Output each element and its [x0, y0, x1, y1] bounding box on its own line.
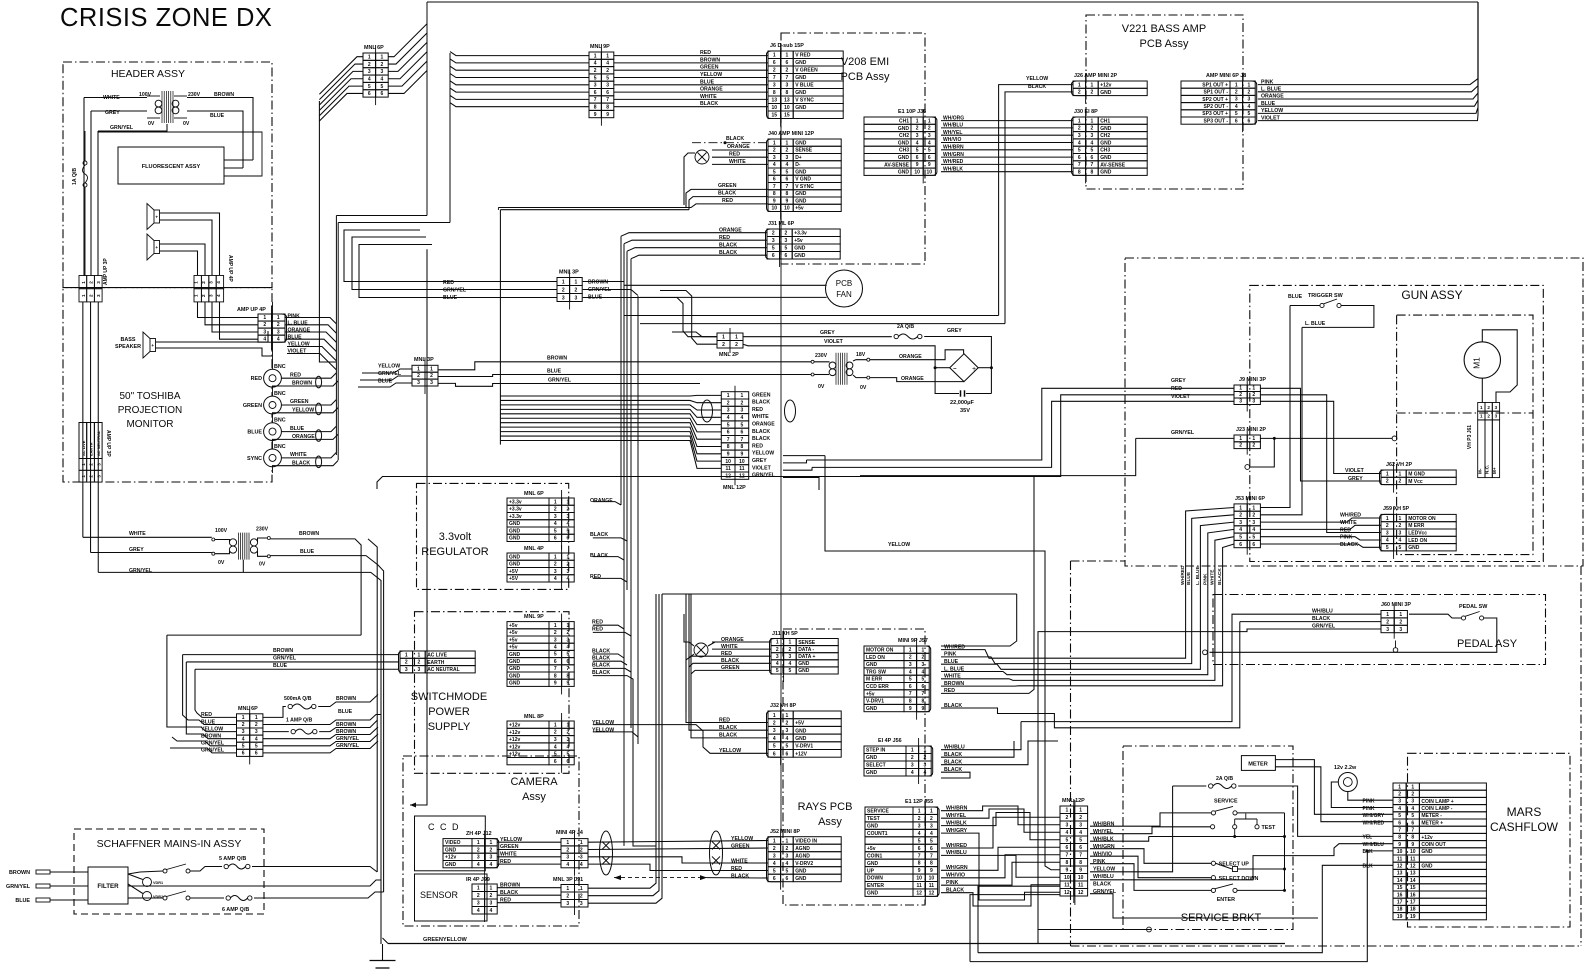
- svg-text:13: 13: [1410, 871, 1416, 877]
- svg-text:WHITE: WHITE: [500, 852, 517, 858]
- connector AMP UP 3P monitor AC: [79, 423, 87, 459]
- svg-text:GND: GND: [1100, 90, 1112, 96]
- wire long x662 lines: [662, 593, 1017, 595]
- wire grnyel gun to J23: [1136, 437, 1234, 439]
- svg-text:2: 2: [567, 507, 570, 513]
- svg-text:5: 5: [740, 422, 743, 428]
- svg-text:+5v: +5v: [866, 691, 875, 697]
- svg-text:TRIGGER SW: TRIGGER SW: [1308, 293, 1344, 299]
- connector MNL 6P regulator: [507, 498, 549, 542]
- svg-text:COIN LAMP -: COIN LAMP -: [1421, 806, 1452, 812]
- svg-text:2: 2: [1091, 90, 1094, 96]
- svg-text:+12v: +12v: [1100, 83, 1111, 89]
- capacitor 22000uF: [960, 390, 962, 396]
- wires J12 to J4: [497, 841, 561, 843]
- monitor box: [63, 288, 272, 482]
- select down switch: [1211, 876, 1215, 880]
- svg-text:2: 2: [924, 755, 927, 761]
- svg-text:GRN/YEL: GRN/YEL: [548, 378, 572, 384]
- svg-text:1: 1: [580, 840, 583, 846]
- svg-text:1: 1: [1066, 808, 1069, 814]
- wires J55 to MNL12P coin: [941, 806, 1060, 825]
- svg-text:4: 4: [1386, 538, 1389, 544]
- svg-text:5: 5: [786, 744, 789, 750]
- svg-text:WH/BLU: WH/BLU: [1093, 874, 1114, 880]
- svg-text:RED: RED: [752, 443, 763, 449]
- connector MNL 8P psu: [507, 721, 549, 765]
- svg-text:3: 3: [554, 737, 557, 743]
- svg-text:3: 3: [418, 667, 421, 673]
- svg-text:WHITE: WHITE: [721, 644, 738, 650]
- svg-text:10: 10: [914, 170, 920, 176]
- BNC GREEN: [264, 396, 282, 414]
- svg-text:CH1: CH1: [899, 119, 909, 125]
- svg-text:BROWN: BROWN: [9, 870, 30, 876]
- svg-text:4: 4: [930, 831, 933, 837]
- svg-text:4: 4: [277, 336, 280, 342]
- svg-text:GND: GND: [1100, 140, 1112, 146]
- svg-text:GND: GND: [866, 770, 878, 776]
- svg-text:BNC: BNC: [274, 364, 286, 370]
- svg-text:GND: GND: [509, 528, 521, 534]
- svg-text:4: 4: [242, 736, 245, 742]
- svg-text:6: 6: [567, 659, 570, 665]
- svg-text:6: 6: [909, 684, 912, 690]
- svg-text:2: 2: [1252, 443, 1255, 449]
- svg-text:1: 1: [928, 118, 931, 124]
- svg-text:STEP IN: STEP IN: [866, 748, 886, 754]
- cable shield left: [702, 400, 713, 422]
- svg-text:1: 1: [1239, 386, 1242, 392]
- svg-text:BLACK: BLACK: [752, 436, 770, 442]
- wires J56 right: [941, 722, 1021, 750]
- svg-text:AMP UP 4P: AMP UP 4P: [237, 307, 266, 313]
- transformer T1 header: [161, 91, 163, 123]
- wire grey to fuse: [743, 336, 892, 338]
- V221 BASS AMP box: [1086, 15, 1243, 189]
- svg-text:1: 1: [490, 886, 493, 892]
- svg-text:BLACK: BLACK: [592, 670, 610, 676]
- svg-text:GRN/YEL: GRN/YEL: [336, 736, 360, 742]
- wires trigger down: [1260, 306, 1290, 508]
- svg-text:4: 4: [381, 77, 384, 83]
- svg-text:+: +: [151, 343, 154, 348]
- connector AMP MINI 6P J8: [1181, 81, 1230, 124]
- svg-text:3: 3: [96, 463, 101, 466]
- svg-text:+: +: [155, 215, 158, 220]
- svg-text:3: 3: [405, 667, 408, 673]
- svg-text:5: 5: [789, 668, 792, 674]
- svg-text:5: 5: [594, 75, 597, 81]
- svg-text:BROWN: BROWN: [336, 729, 356, 735]
- svg-text:YELLOW: YELLOW: [731, 836, 753, 842]
- svg-text:MNL 2P: MNL 2P: [719, 352, 739, 358]
- test switch: [1211, 825, 1215, 829]
- svg-text:1: 1: [789, 640, 792, 646]
- svg-text:6: 6: [773, 876, 776, 882]
- svg-text:MNL 12P: MNL 12P: [723, 485, 746, 491]
- svg-text:8: 8: [606, 105, 609, 111]
- svg-text:SP3 OUT +: SP3 OUT +: [1202, 111, 1228, 117]
- svg-text:12: 12: [1397, 864, 1403, 870]
- svg-text:5: 5: [1078, 148, 1081, 154]
- svg-text:4: 4: [490, 908, 493, 914]
- svg-text:1: 1: [1078, 82, 1081, 88]
- svg-text:3: 3: [567, 637, 570, 643]
- svg-text:1: 1: [81, 281, 86, 284]
- schaffner mains-in box: [74, 829, 264, 914]
- svg-text:MINI 4P J4: MINI 4P J4: [556, 830, 583, 836]
- svg-text:3: 3: [477, 901, 480, 907]
- svg-text:2: 2: [594, 68, 597, 74]
- svg-text:3: 3: [773, 83, 776, 89]
- svg-text:REGULATOR: REGULATOR: [421, 546, 488, 558]
- svg-text:YEL: YEL: [1363, 835, 1373, 841]
- wires pedal switch: [1409, 614, 1461, 618]
- svg-text:SPEAKER: SPEAKER: [115, 344, 141, 350]
- svg-text:V RED: V RED: [795, 53, 811, 59]
- svg-text:3: 3: [740, 408, 743, 414]
- svg-text:1: 1: [722, 335, 725, 341]
- svg-text:4: 4: [911, 770, 914, 776]
- ccd box: [415, 816, 486, 871]
- svg-text:2: 2: [554, 562, 557, 568]
- svg-text:2: 2: [263, 322, 266, 328]
- svg-text:3: 3: [381, 69, 384, 75]
- camera assy box: [403, 756, 579, 926]
- filter box: [88, 867, 128, 904]
- wire bus fan to MNL12P pair: [500, 394, 721, 397]
- svg-text:1: 1: [1480, 405, 1483, 410]
- connector MNL 6P fuse block: [237, 714, 263, 757]
- svg-text:2: 2: [722, 342, 725, 348]
- svg-text:8: 8: [1091, 170, 1094, 176]
- svg-text:3: 3: [554, 637, 557, 643]
- svg-text:GREEN: GREEN: [243, 403, 262, 409]
- svg-text:+3.3v: +3.3v: [794, 231, 807, 237]
- mars cashflow box: [1408, 753, 1571, 927]
- svg-text:LEDVcc: LEDVcc: [1408, 531, 1427, 537]
- connector MINI 9P J57: [864, 646, 904, 712]
- svg-text:6: 6: [1079, 845, 1082, 851]
- svg-text:2: 2: [1386, 523, 1389, 529]
- svg-text:5: 5: [368, 84, 371, 90]
- connector MNL 3P second: [412, 365, 438, 386]
- svg-text:4: 4: [567, 645, 570, 651]
- svg-text:10: 10: [725, 459, 731, 465]
- svg-text:2: 2: [773, 846, 776, 852]
- connector MNL 3P first: [557, 278, 582, 302]
- svg-text:E1 12P J55: E1 12P J55: [905, 799, 933, 805]
- svg-text:8: 8: [773, 191, 776, 197]
- svg-text:4: 4: [1398, 806, 1401, 812]
- svg-text:1: 1: [776, 640, 779, 646]
- svg-text:1: 1: [554, 623, 557, 629]
- svg-text:2: 2: [1239, 443, 1242, 449]
- svg-text:PROJECTION: PROJECTION: [118, 405, 182, 416]
- svg-text:8: 8: [727, 444, 730, 450]
- svg-text:3: 3: [554, 569, 557, 575]
- svg-text:2: 2: [1078, 126, 1081, 132]
- svg-text:2: 2: [1248, 90, 1251, 96]
- svg-text:6: 6: [786, 60, 789, 66]
- svg-text:11: 11: [1064, 883, 1070, 889]
- wire mars coin out: [1090, 844, 1393, 880]
- svg-text:WH/BLK: WH/BLK: [943, 166, 963, 172]
- svg-text:1: 1: [909, 647, 912, 653]
- svg-text:7: 7: [1398, 828, 1401, 834]
- svg-text:MARS: MARS: [1507, 805, 1542, 819]
- svg-text:5: 5: [381, 84, 384, 90]
- svg-text:4: 4: [594, 61, 597, 67]
- svg-text:WHITE: WHITE: [129, 531, 146, 537]
- svg-text:4: 4: [909, 669, 912, 675]
- svg-text:5: 5: [786, 868, 789, 874]
- svg-text:15: 15: [1410, 885, 1416, 891]
- svg-text:MNL 3P J91: MNL 3P J91: [553, 877, 583, 883]
- svg-text:2: 2: [1252, 513, 1255, 519]
- svg-text:8: 8: [1411, 835, 1414, 841]
- svg-text:3: 3: [1495, 414, 1498, 419]
- connector ZH 4P J12: [443, 839, 472, 868]
- svg-text:SP2 OUT -: SP2 OUT -: [1204, 104, 1229, 110]
- svg-text:1: 1: [562, 280, 565, 286]
- svg-text:WH/ORG: WH/ORG: [943, 115, 964, 121]
- svg-text:5: 5: [930, 838, 933, 844]
- svg-text:1: 1: [1386, 471, 1389, 477]
- svg-text:2: 2: [1399, 523, 1402, 529]
- svg-text:1: 1: [477, 840, 480, 846]
- wires fuse block left: [195, 669, 237, 717]
- svg-text:CH2: CH2: [1100, 133, 1110, 139]
- svg-text:J30 EI 8P: J30 EI 8P: [1074, 109, 1098, 115]
- svg-text:6: 6: [1091, 155, 1094, 161]
- svg-text:6: 6: [554, 759, 557, 765]
- wires J99 to J91: [497, 887, 561, 889]
- svg-text:GND: GND: [795, 728, 807, 734]
- svg-text:9: 9: [1066, 868, 1069, 874]
- svg-text:11: 11: [917, 883, 923, 889]
- connector MNL 6P top: [363, 53, 388, 97]
- svg-text:COIN1: COIN1: [867, 853, 883, 859]
- svg-text:2: 2: [381, 62, 384, 68]
- svg-text:RED: RED: [592, 627, 603, 633]
- svg-text:2: 2: [922, 655, 925, 661]
- svg-text:2: 2: [562, 288, 565, 294]
- svg-text:M+: M+: [1492, 467, 1497, 474]
- svg-text:5: 5: [909, 677, 912, 683]
- connector J62 VH 2P: [1406, 470, 1456, 485]
- transformer T2 mains: [238, 533, 240, 560]
- svg-text:M GND: M GND: [1408, 472, 1425, 478]
- svg-text:2: 2: [567, 562, 570, 568]
- svg-text:1: 1: [81, 294, 86, 297]
- svg-text:4: 4: [566, 862, 569, 868]
- svg-text:MOTOR ON: MOTOR ON: [866, 648, 894, 654]
- svg-text:16: 16: [1410, 892, 1416, 898]
- svg-text:3: 3: [567, 569, 570, 575]
- svg-text:YELLOW: YELLOW: [500, 837, 522, 843]
- svg-text:2: 2: [580, 894, 583, 900]
- svg-text:4: 4: [567, 744, 570, 750]
- svg-text:4: 4: [606, 61, 609, 67]
- svg-text:GND: GND: [509, 536, 521, 542]
- svg-text:CH1: CH1: [1100, 119, 1110, 125]
- svg-text:3: 3: [1398, 799, 1401, 805]
- svg-text:0V: 0V: [148, 121, 155, 127]
- svg-text:6: 6: [1252, 542, 1255, 548]
- svg-text:7: 7: [554, 666, 557, 672]
- svg-text:1: 1: [1235, 82, 1238, 88]
- svg-text:5: 5: [567, 652, 570, 658]
- svg-text:15: 15: [772, 113, 778, 119]
- svg-text:2: 2: [554, 730, 557, 736]
- svg-text:8: 8: [554, 673, 557, 679]
- svg-text:7: 7: [918, 853, 921, 859]
- svg-text:BLACK: BLACK: [590, 532, 608, 538]
- svg-text:10: 10: [916, 876, 922, 882]
- connector mars 19P: [1419, 783, 1486, 920]
- svg-text:GND: GND: [509, 659, 521, 665]
- svg-text:5: 5: [918, 838, 921, 844]
- connector J9 MINI 3P: [1234, 385, 1260, 405]
- svg-text:9: 9: [916, 162, 919, 168]
- svg-text:PINK: PINK: [1340, 535, 1353, 541]
- svg-text:13: 13: [772, 98, 778, 104]
- svg-text:4: 4: [1239, 527, 1242, 533]
- svg-text:GRN/YEL: GRN/YEL: [336, 743, 360, 749]
- svg-text:2: 2: [89, 294, 94, 297]
- svg-text:2: 2: [490, 847, 493, 853]
- wires J91 right up: [589, 594, 657, 888]
- svg-text:6: 6: [773, 60, 776, 66]
- connector AMP UP 4P monitor: [258, 314, 285, 342]
- svg-text:BLACK: BLACK: [719, 250, 737, 256]
- svg-text:1: 1: [242, 715, 245, 721]
- svg-text:RAYS PCB: RAYS PCB: [798, 801, 853, 813]
- svg-text:1: 1: [567, 554, 570, 560]
- svg-text:N.C.: N.C.: [1485, 465, 1490, 474]
- svg-text:2: 2: [916, 126, 919, 132]
- svg-text:CH2: CH2: [899, 133, 909, 139]
- svg-text:6: 6: [1239, 542, 1242, 548]
- wire rails to fan and J26: [624, 315, 999, 317]
- wire test junction: [1149, 836, 1285, 838]
- svg-text:2: 2: [735, 342, 738, 348]
- wire grnyel long: [98, 572, 381, 944]
- svg-text:17: 17: [1397, 900, 1403, 906]
- header box bottom wire: [63, 287, 272, 289]
- svg-text:3: 3: [1386, 627, 1389, 633]
- svg-text:14: 14: [1397, 878, 1403, 884]
- svg-text:10: 10: [1397, 849, 1403, 855]
- svg-text:1: 1: [930, 809, 933, 815]
- svg-text:V221 BASS AMP: V221 BASS AMP: [1122, 23, 1206, 35]
- svg-text:6: 6: [1066, 845, 1069, 851]
- svg-text:9: 9: [727, 452, 730, 458]
- connector MNL 4P regulator: [507, 553, 549, 582]
- svg-text:4: 4: [477, 862, 480, 868]
- svg-text:GREEN: GREEN: [721, 665, 740, 671]
- svg-text:2: 2: [554, 630, 557, 636]
- wires J31 left: [621, 233, 767, 237]
- svg-text:2: 2: [567, 730, 570, 736]
- svg-text:WH/RED: WH/RED: [943, 159, 964, 165]
- connector VH P3 J61: [1478, 403, 1485, 412]
- svg-text:GND: GND: [795, 75, 807, 81]
- svg-text:3: 3: [575, 296, 578, 302]
- svg-text:7: 7: [786, 184, 789, 190]
- svg-text:GREEN: GREEN: [500, 844, 519, 850]
- svg-text:1: 1: [81, 475, 86, 478]
- svg-text:4: 4: [916, 140, 919, 146]
- svg-text:1: 1: [1398, 784, 1401, 790]
- connector AMP UP 4P speakers: [194, 276, 201, 289]
- svg-text:MOTOR ON: MOTOR ON: [1408, 516, 1436, 522]
- svg-text:3: 3: [1252, 520, 1255, 526]
- svg-text:3: 3: [786, 728, 789, 734]
- svg-text:1 AMP Q/B: 1 AMP Q/B: [286, 718, 312, 724]
- svg-text:RED: RED: [719, 235, 730, 241]
- svg-text:10: 10: [739, 459, 745, 465]
- svg-text:3: 3: [727, 408, 730, 414]
- svg-text:GND: GND: [1100, 170, 1112, 176]
- svg-text:BLUE: BLUE: [15, 898, 30, 904]
- svg-text:+12v: +12v: [1421, 835, 1432, 841]
- wire header primary: [84, 97, 147, 99]
- svg-text:1: 1: [1079, 808, 1082, 814]
- svg-text:ORANGE: ORANGE: [1261, 94, 1284, 100]
- svg-text:3: 3: [1079, 823, 1082, 829]
- svg-text:8: 8: [786, 90, 789, 96]
- svg-text:5: 5: [785, 246, 788, 252]
- wires MNL3P2 left: [362, 369, 412, 373]
- svg-text:1: 1: [773, 53, 776, 59]
- svg-text:6: 6: [930, 846, 933, 852]
- svg-text:2: 2: [773, 148, 776, 154]
- svg-text:J52 MINI 8P: J52 MINI 8P: [770, 829, 800, 835]
- svg-text:2: 2: [772, 231, 775, 237]
- wires MNL9P right to J6: [614, 55, 768, 57]
- svg-text:4: 4: [740, 415, 743, 421]
- svg-text:3: 3: [1239, 399, 1242, 405]
- svg-text:5: 5: [242, 743, 245, 749]
- connector J11 XH 5P: [796, 639, 838, 675]
- wires J36 to J30: [941, 120, 1073, 122]
- svg-text:1: 1: [477, 886, 480, 892]
- svg-text:+12v: +12v: [509, 752, 520, 758]
- svg-text:1: 1: [580, 886, 583, 892]
- svg-text:GREY: GREY: [820, 330, 835, 336]
- svg-text:+5v: +5v: [509, 630, 518, 636]
- svg-text:9: 9: [740, 452, 743, 458]
- svg-text:6: 6: [554, 536, 557, 542]
- svg-text:5: 5: [1248, 111, 1251, 117]
- svg-text:2: 2: [418, 660, 421, 666]
- svg-text:3: 3: [566, 855, 569, 861]
- wires bnc bundle verticals: [335, 216, 337, 456]
- svg-text:METER: METER: [1248, 762, 1268, 768]
- wires J60 left: [1021, 614, 1381, 721]
- svg-text:SENSE: SENSE: [795, 148, 813, 154]
- svg-text:M Vcc: M Vcc: [1408, 479, 1423, 485]
- svg-text:3: 3: [1495, 405, 1498, 410]
- svg-text:19: 19: [1397, 914, 1403, 920]
- svg-text:2: 2: [405, 660, 408, 666]
- V208 EMI PCB assy box: [781, 33, 925, 264]
- svg-text:0V: 0V: [183, 121, 190, 127]
- svg-text:6: 6: [786, 751, 789, 757]
